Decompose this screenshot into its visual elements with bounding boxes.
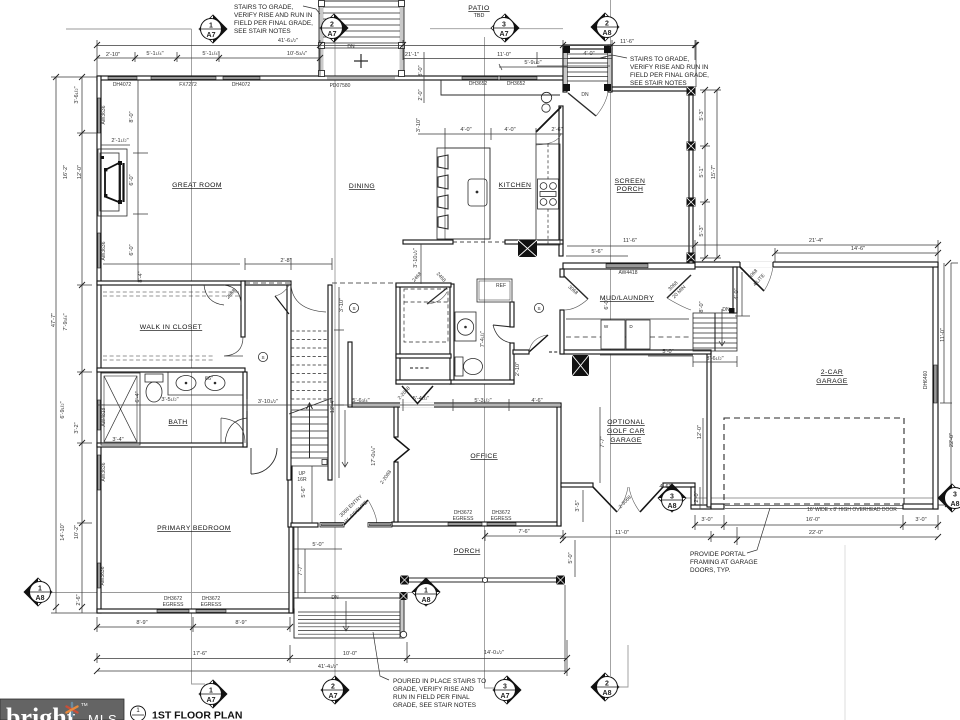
marker 1/A8 center [412, 578, 440, 606]
bedroom entry door [251, 448, 277, 474]
screen porch landing left wall [563, 45, 567, 92]
svg-text:17'-6": 17'-6" [193, 651, 207, 657]
svg-text:GOLF CAR: GOLF CAR [607, 428, 645, 435]
top dim line row2 [97, 57, 320, 59]
main stair treads upper flight dashed [291, 331, 328, 399]
svg-text:3'-0": 3'-0" [915, 517, 926, 523]
window DH3672 egress3 [448, 523, 482, 526]
section line 3/A8 horizontal [682, 497, 944, 499]
stair cut line [289, 398, 332, 414]
stairwell left wall [287, 285, 291, 480]
W box [601, 320, 625, 349]
kitchen right wall [559, 106, 563, 256]
svg-text:1ST FLOOR PLAN: 1ST FLOOR PLAN [152, 710, 242, 720]
bedroom door arc [225, 418, 247, 443]
pantry bottom wall [396, 354, 451, 358]
landing top wall [563, 45, 612, 49]
svg-text:1: 1 [209, 688, 213, 695]
svg-text:5'-0": 5'-0" [568, 552, 574, 563]
garage bottom wall right stub [903, 504, 938, 509]
svg-text:2: 2 [605, 21, 609, 28]
lower deck boards [298, 612, 400, 634]
screen porch right vdims [700, 90, 721, 258]
svg-text:A7: A7 [207, 32, 216, 39]
landing deck boards [567, 54, 608, 81]
mud/screen-porch wall band [563, 263, 695, 269]
bedroom bottom wall [97, 609, 294, 613]
svg-text:3'-5": 3'-5" [575, 500, 581, 511]
bath toilet [145, 374, 163, 382]
lower deck right rail [400, 598, 404, 638]
svg-text:5'-0": 5'-0" [312, 542, 323, 548]
window PD07580 under deck [327, 77, 395, 80]
entry door diagonal 3068 [344, 500, 368, 525]
garage entry door opening [740, 262, 773, 268]
svg-text:A8: A8 [422, 597, 431, 604]
svg-text:S: S [537, 306, 540, 311]
window AW3636 left3 [98, 455, 101, 490]
mud left wall upper [560, 269, 564, 277]
svg-text:STAIRS TO GRADE,: STAIRS TO GRADE, [630, 56, 690, 63]
powder sink [455, 312, 476, 341]
svg-text:3'-0": 3'-0" [418, 65, 424, 76]
svg-text:7'-7": 7'-7" [600, 436, 606, 447]
D box [626, 320, 650, 349]
kitchen 5-9 dim [537, 65, 610, 67]
svg-text:DN: DN [722, 307, 730, 313]
dim ticks [94, 42, 699, 61]
svg-text:DH3652: DH3652 [469, 81, 488, 87]
kitchen island top dim line [418, 128, 563, 148]
svg-text:3'-10": 3'-10" [339, 298, 345, 312]
svg-text:3'-61/2": 3'-61/2" [706, 356, 723, 362]
svg-text:GREAT ROOM: GREAT ROOM [172, 182, 222, 189]
stair hall door arc [291, 285, 326, 312]
svg-text:3'-51/2": 3'-51/2" [161, 397, 178, 403]
svg-text:EGRESS: EGRESS [201, 602, 223, 608]
top right kitchen dim [403, 52, 612, 103]
stairwell right wall [328, 285, 332, 480]
bath vanity [168, 372, 243, 395]
window DH4072 top [108, 77, 137, 80]
patio corner posts [319, 1, 325, 7]
landing right wall [608, 45, 612, 92]
svg-text:GRADE, VERIFY RISE AND: GRADE, VERIFY RISE AND [393, 686, 474, 693]
svg-text:4'-0": 4'-0" [460, 127, 471, 133]
breezeway bottom jog horizontal [691, 505, 711, 509]
svg-text:4'-0": 4'-0" [734, 288, 740, 299]
svg-text:A7: A7 [501, 693, 510, 700]
svg-text:OFFICE: OFFICE [470, 453, 497, 460]
svg-text:SEE STAIR NOTES: SEE STAIR NOTES [234, 28, 291, 35]
kitchen top counter edge [441, 80, 560, 95]
faint line below garage door [844, 545, 846, 720]
svg-text:10'-0": 10'-0" [343, 651, 357, 657]
screen porch top wall [612, 87, 693, 91]
lower deck outline [294, 598, 404, 638]
marker 3/A7 bottom [493, 676, 521, 704]
closet interior dim [103, 263, 240, 265]
closet right wall [241, 281, 245, 337]
svg-text:16R: 16R [297, 477, 307, 483]
breezeway door arcs [617, 487, 640, 512]
lower deck post top [400, 592, 408, 600]
interior stair vdim [334, 287, 344, 478]
interior dim string y405 [97, 399, 560, 411]
svg-text:VERIFY RISE AND RUN IN: VERIFY RISE AND RUN IN [630, 64, 709, 71]
porch floor edge left [294, 527, 298, 598]
office 3-5 vdim [582, 490, 584, 522]
entry wall right segment / office bottom wall [392, 522, 561, 526]
keyed note S circle 3 [534, 303, 543, 312]
mud room bottom wall [561, 350, 711, 354]
svg-text:POURED IN PLACE STAIRS TO: POURED IN PLACE STAIRS TO [393, 678, 486, 685]
svg-text:8'-9": 8'-9" [235, 620, 246, 626]
powder right wall lower [510, 343, 514, 384]
svg-text:3'-0": 3'-0" [701, 517, 712, 523]
svg-text:DINING: DINING [349, 183, 375, 190]
svg-text:11'-6": 11'-6" [620, 39, 634, 45]
entry wall left segment [291, 523, 318, 527]
hall bottom wall [513, 350, 529, 354]
pantry dashed shelves [404, 289, 448, 342]
landing side rails [564, 49, 568, 91]
svg-text:PORCH: PORCH [454, 548, 481, 555]
marker 2/A7 top [320, 14, 348, 42]
svg-text:AW3636: AW3636 [101, 105, 107, 124]
svg-text:22'-0": 22'-0" [809, 530, 823, 536]
svg-text:TM: TM [81, 702, 88, 707]
garage top dims [695, 240, 938, 262]
closet rods dashed [103, 292, 240, 296]
landing door leaf [568, 93, 596, 116]
svg-text:DH4072: DH4072 [232, 82, 251, 88]
marker 3/A7 top [491, 14, 519, 42]
svg-text:10'-2": 10'-2" [74, 525, 80, 539]
svg-text:PRIMARY BEDROOM: PRIMARY BEDROOM [157, 525, 231, 532]
svg-text:4'-6": 4'-6" [531, 398, 542, 404]
pantry door 2468 [427, 288, 447, 304]
garage top wall [687, 262, 938, 267]
svg-text:FX7272: FX7272 [179, 82, 197, 88]
bedroom right wall [289, 523, 293, 613]
svg-text:A8: A8 [951, 501, 960, 508]
svg-text:A8: A8 [603, 690, 612, 697]
svg-text:bright: bright [6, 703, 76, 720]
porch bottom dims [485, 530, 565, 672]
office top wall [352, 403, 561, 407]
svg-text:6'-0": 6'-0" [604, 298, 610, 309]
svg-text:2'-10": 2'-10" [515, 362, 521, 376]
svg-text:2: 2 [330, 22, 334, 29]
hall door 2468 leaf [275, 296, 289, 314]
fridge REF [477, 279, 512, 302]
svg-text:RUN IN FIELD PER FINAL: RUN IN FIELD PER FINAL [393, 694, 470, 701]
svg-text:11'-0": 11'-0" [497, 52, 511, 58]
fireplace width dim [101, 144, 130, 146]
svg-text:FIELD PER FINAL GRADE,: FIELD PER FINAL GRADE, [234, 20, 313, 27]
porch post right [556, 576, 565, 585]
garage left wall [707, 351, 711, 507]
svg-text:1: 1 [38, 586, 42, 593]
hall dashed opening2 [332, 282, 403, 284]
svg-text:2: 2 [331, 684, 335, 691]
svg-text:8'-9": 8'-9" [136, 620, 147, 626]
svg-text:5'-1": 5'-1" [699, 166, 705, 177]
svg-text:22'-0": 22'-0" [949, 433, 955, 447]
foyer left wall below stairs [288, 466, 292, 527]
island sink [468, 179, 487, 206]
main stair treads lower flight [291, 410, 328, 466]
svg-text:11'-0": 11'-0" [940, 328, 946, 342]
svg-text:DH6460: DH6460 [923, 371, 929, 390]
garage bottom wall left stub [711, 504, 724, 509]
marker right edge [938, 484, 960, 512]
svg-text:21'-1": 21'-1" [405, 52, 419, 58]
marker 1/A7 top [199, 15, 227, 43]
svg-text:1: 1 [209, 23, 213, 30]
office left wall lower [394, 462, 398, 522]
keyed note S circle 2 [349, 303, 358, 312]
svg-text:A7: A7 [328, 31, 337, 38]
window DH3652b top [500, 77, 537, 80]
mud stairs treads [693, 313, 737, 351]
svg-text:GARAGE: GARAGE [816, 378, 848, 385]
svg-text:3: 3 [953, 492, 957, 499]
svg-text:MLS: MLS [88, 712, 118, 720]
svg-text:12'-0": 12'-0" [697, 425, 703, 439]
svg-text:8'-0": 8'-0" [699, 301, 705, 312]
screen porch posts with X [687, 87, 696, 262]
svg-text:7'-93/4": 7'-93/4" [63, 313, 69, 330]
window AW4818T left [98, 400, 101, 430]
closet door arcs top [204, 285, 241, 305]
window AW4418 mud [606, 264, 648, 268]
svg-text:VERIFY RISE AND RUN IN: VERIFY RISE AND RUN IN [234, 12, 313, 19]
svg-text:DH4072: DH4072 [113, 82, 132, 88]
svg-text:A7: A7 [500, 31, 509, 38]
top dim extension verticals [97, 40, 695, 76]
porch post left [400, 576, 409, 585]
powder door arc [493, 325, 512, 343]
bottom dim row2 [97, 640, 567, 676]
patio deck outline [319, 1, 404, 76]
svg-text:2: 2 [605, 681, 609, 688]
svg-text:REF: REF [496, 283, 506, 289]
svg-text:5'-91/2": 5'-91/2" [524, 60, 541, 66]
title 1ST FLOOR PLAN [131, 706, 243, 720]
bath bottom wall [97, 443, 247, 447]
deck DN arrow [343, 601, 349, 631]
section line 3/A7 vertical [485, 37, 496, 688]
svg-text:S: S [261, 355, 264, 360]
hall door arc 2668 [529, 335, 547, 352]
attic access X box [572, 355, 589, 376]
island stools [438, 155, 448, 169]
svg-text:A8: A8 [668, 503, 677, 510]
marker 2/A8 bottom [591, 673, 619, 701]
svg-text:2'-8": 2'-8" [280, 258, 291, 264]
svg-text:12'-0": 12'-0" [77, 165, 83, 179]
svg-text:PATIO: PATIO [468, 5, 489, 12]
porch mid post circle [482, 577, 487, 582]
hall top wall [245, 281, 291, 285]
mud counter [566, 318, 689, 320]
powder toilet [455, 357, 463, 376]
svg-text:PORCH: PORCH [617, 186, 644, 193]
svg-text:66": 66" [205, 376, 213, 382]
kitchen wall gap dashed [453, 241, 505, 243]
chase X box kitchen [518, 240, 537, 257]
screenporch interior dims [566, 246, 693, 256]
patio center post cross [354, 54, 368, 68]
svg-text:6'-0": 6'-0" [129, 174, 135, 185]
section line 1/A8 horizontal [48, 592, 418, 594]
svg-text:47'-7": 47'-7" [51, 313, 57, 327]
svg-text:5'-31/2": 5'-31/2" [474, 398, 491, 404]
patio landing rail line [323, 47, 400, 49]
svg-text:WALK IN CLOSET: WALK IN CLOSET [140, 324, 202, 331]
svg-text:8'-4": 8'-4" [138, 271, 144, 282]
kitchen bottom wall left [403, 240, 453, 244]
svg-text:5'-0": 5'-0" [662, 349, 673, 355]
mud left wall lower [560, 310, 564, 354]
hall door 2668 [529, 335, 548, 352]
bottom dim row1 bedroom [97, 617, 290, 632]
svg-text:A7: A7 [329, 693, 338, 700]
window DH4072b top [223, 77, 260, 80]
svg-text:5'-6": 5'-6" [591, 249, 602, 255]
svg-text:3: 3 [670, 494, 674, 501]
garage door dashed rect [724, 418, 904, 504]
svg-text:2'-0": 2'-0" [694, 491, 700, 502]
svg-text:3'-2": 3'-2" [74, 422, 80, 433]
svg-text:3'-101/2": 3'-101/2" [413, 248, 419, 268]
svg-text:21'-4": 21'-4" [809, 238, 823, 244]
svg-text:EGRESS: EGRESS [491, 516, 513, 522]
interior dim greatroom vertical [133, 80, 148, 282]
svg-text:3: 3 [502, 22, 506, 29]
window AW3636 left2 [98, 233, 101, 268]
closet door arc [224, 337, 243, 356]
svg-text:1: 1 [424, 588, 428, 595]
svg-text:5'-3": 5'-3" [699, 225, 705, 236]
office right wall [557, 404, 561, 526]
breezeway top wall left [561, 483, 593, 487]
svg-text:15'-7": 15'-7" [711, 165, 717, 179]
svg-text:AW4418: AW4418 [619, 270, 638, 276]
svg-text:5'-3": 5'-3" [699, 109, 705, 120]
svg-text:6'-91/2": 6'-91/2" [60, 401, 66, 418]
svg-text:2'-10": 2'-10" [106, 52, 120, 58]
porch rail [403, 578, 563, 582]
svg-text:GRADE, SEE STAIR NOTES: GRADE, SEE STAIR NOTES [393, 702, 476, 709]
garage right wall [933, 263, 938, 509]
svg-text:16'-2": 16'-2" [63, 165, 69, 179]
svg-text:6'-0": 6'-0" [129, 244, 135, 255]
svg-text:FRAMING AT GARAGE: FRAMING AT GARAGE [690, 559, 758, 566]
fireplace [98, 149, 127, 216]
garage entry door 3068 4LITE leaf [740, 267, 764, 291]
svg-text:8'-0": 8'-0" [129, 111, 135, 122]
lower deck post bottom circle [400, 631, 406, 637]
svg-text:A7: A7 [207, 697, 216, 704]
kitchen bottom wall right [505, 240, 563, 244]
mud stairs DN arrow [719, 309, 725, 346]
svg-text:5'-11/4": 5'-11/4" [202, 51, 219, 57]
svg-text:14'-6": 14'-6" [851, 246, 865, 252]
marker 1/A8 left [24, 578, 52, 606]
right garage vdim [938, 263, 958, 510]
marker 2/A8 top [591, 13, 619, 41]
svg-text:W: W [604, 324, 609, 329]
keyed note S circle 1 [258, 352, 267, 361]
svg-text:17'-03/4": 17'-03/4" [371, 446, 377, 466]
svg-text:KITCHEN: KITCHEN [499, 182, 532, 189]
svg-text:DN: DN [331, 595, 339, 601]
svg-text:11'-0": 11'-0" [615, 530, 629, 536]
bath shower [101, 373, 140, 445]
hall 5-0 dim [648, 355, 693, 357]
landing dim 4-0 [570, 57, 606, 59]
svg-text:16'-0": 16'-0" [806, 517, 820, 523]
left vdim outer [51, 77, 97, 613]
garage 4-0 door vdim [735, 272, 750, 316]
mud room right wall [733, 267, 737, 313]
breezeway top wall right [663, 483, 695, 487]
left exterior wall [97, 76, 101, 613]
porch left dims [294, 549, 342, 593]
porch right 5-0 vdim [574, 540, 576, 577]
top dim line row1 [97, 40, 696, 87]
office left wall upper [394, 407, 398, 437]
foyer dim lines [312, 410, 348, 523]
entry sidelite left [320, 523, 344, 527]
porch 11-0 dim [563, 527, 737, 545]
closet/bath wall [97, 368, 245, 372]
kitchen door arc to porch hall [536, 133, 561, 145]
svg-text:3: 3 [503, 684, 507, 691]
garage 12-0 vdim [702, 418, 704, 504]
garage entry door arc [764, 267, 773, 291]
breezeway double door V right leaf [640, 487, 663, 512]
landing door arc [596, 92, 608, 116]
garage overhead door sill [724, 506, 903, 509]
breezeway double door V left leaf [593, 487, 617, 512]
svg-text:DN: DN [347, 44, 355, 50]
svg-text:S: S [352, 306, 355, 311]
great room dashed opening [245, 282, 291, 284]
window DH6460 garage [934, 365, 937, 403]
svg-text:3'-61/2": 3'-61/2" [74, 86, 80, 103]
svg-text:3'-10": 3'-10" [416, 118, 422, 132]
kitchen island [437, 148, 490, 239]
window DH3672 egress2 [196, 610, 226, 613]
svg-text:5'-6": 5'-6" [301, 486, 307, 497]
svg-text:14'-10": 14'-10" [60, 523, 66, 540]
svg-text:A8: A8 [36, 595, 45, 602]
svg-text:5'-41/2": 5'-41/2" [413, 396, 430, 402]
window DH3672 egress1 [157, 610, 189, 613]
svg-text:DH3652: DH3652 [507, 81, 526, 87]
svg-text:PROVIDE PORTAL: PROVIDE PORTAL [690, 551, 746, 558]
section line 1/A7 vertical [192, 29, 206, 684]
svg-text:2-CAR: 2-CAR [821, 369, 843, 376]
closet top dim [245, 258, 332, 270]
brightMLS watermark [0, 699, 124, 720]
window FX7272 top [151, 77, 216, 80]
svg-text:AW3636: AW3636 [101, 462, 107, 481]
